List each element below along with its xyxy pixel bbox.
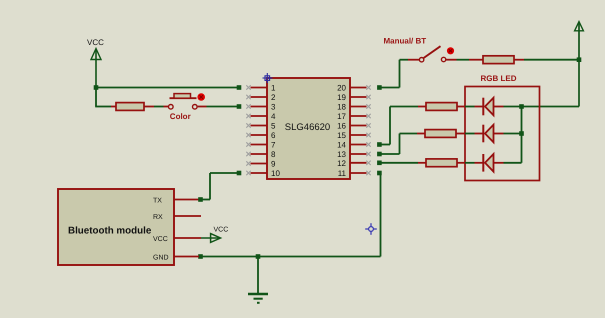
pin VCC lead <box>174 237 201 239</box>
svg-text:7: 7 <box>271 141 276 150</box>
LED D1b (middle) <box>475 125 504 143</box>
svg-text:GND: GND <box>153 255 169 262</box>
power terminal VCC (bluetooth) <box>201 227 228 243</box>
wire pin13 to resistor R4 <box>377 134 417 157</box>
svg-text:2: 2 <box>271 93 276 102</box>
wire button to pin3 <box>207 106 240 108</box>
svg-text:SLG46620: SLG46620 <box>285 122 330 133</box>
svg-text:15: 15 <box>337 131 346 140</box>
pin 19 <box>337 93 371 102</box>
pin 4 <box>246 112 276 121</box>
resistor R3 (top LED row) <box>418 103 465 111</box>
pin 6 <box>246 131 276 140</box>
pin 14 <box>337 141 371 150</box>
svg-text:VCC: VCC <box>214 227 229 234</box>
junction on VCC rail <box>577 57 582 62</box>
resistor R4 (middle LED row) <box>417 130 465 138</box>
resistor R2 (Manual/BT row) <box>469 56 524 64</box>
svg-text:19: 19 <box>337 93 346 102</box>
Bluetooth module body <box>58 189 174 265</box>
pin 8 <box>246 150 276 159</box>
wire to resistor R1 <box>95 106 111 108</box>
pin 1 <box>246 84 276 93</box>
svg-text:17: 17 <box>337 112 346 121</box>
svg-text:Bluetooth module: Bluetooth module <box>68 226 152 237</box>
svg-text:4: 4 <box>271 112 276 121</box>
svg-text:11: 11 <box>338 169 347 178</box>
switch SW1 Manual/BT <box>408 46 457 62</box>
wire end dot at GND pin <box>198 254 203 259</box>
resistor R1 (Color row) <box>111 103 154 111</box>
blue target marker <box>365 223 377 235</box>
LED anode bus wires <box>504 107 522 163</box>
pin 3 <box>246 103 276 112</box>
pin 20 <box>337 84 371 93</box>
svg-text:10: 10 <box>271 169 280 178</box>
svg-text:18: 18 <box>337 103 346 112</box>
svg-text:13: 13 <box>337 150 346 159</box>
pin 17 <box>337 112 371 121</box>
svg-text:5: 5 <box>271 122 276 131</box>
LED D1a (top) <box>475 98 504 116</box>
power terminal VCC top-right <box>575 22 584 107</box>
pin 12 <box>337 159 371 168</box>
wire TX up to pin10 <box>198 171 241 202</box>
pin 9 <box>246 160 276 169</box>
svg-text:9: 9 <box>271 160 276 169</box>
pin 5 <box>246 122 276 131</box>
pin 2 <box>246 93 276 102</box>
push button Color <box>164 94 207 110</box>
svg-text:12: 12 <box>337 159 346 168</box>
pin 15 <box>337 131 371 140</box>
svg-text:VCC: VCC <box>153 236 168 243</box>
svg-text:16: 16 <box>337 122 346 131</box>
pin 13 <box>337 150 371 159</box>
svg-text:20: 20 <box>337 84 346 93</box>
pin 7 <box>246 141 276 150</box>
wire end dot pin3 <box>237 104 242 109</box>
ground symbol <box>248 257 268 303</box>
svg-text:8: 8 <box>271 150 276 159</box>
IC U1 SLG46620 body <box>267 78 350 179</box>
power terminal VCC top-left <box>87 38 104 88</box>
pin TX lead <box>174 199 201 201</box>
wire end dot pin1 <box>237 85 242 90</box>
LED D1c (bottom) <box>475 154 504 172</box>
wire pin14 to resistor R3 <box>377 107 418 147</box>
wire VCC rail to LED anode bus <box>504 106 580 108</box>
wire pin20 up to switch <box>377 60 408 90</box>
junction bus middle <box>519 131 524 136</box>
wire R3 to LED1 <box>465 106 475 108</box>
svg-text:1: 1 <box>271 84 276 93</box>
pin 18 <box>337 103 371 112</box>
RGB LED box D1 <box>465 87 540 181</box>
junction at ground tap <box>256 254 261 259</box>
svg-text:TX: TX <box>153 197 162 204</box>
svg-text:VCC: VCC <box>87 38 104 47</box>
wire VCC to pin1 <box>96 87 239 89</box>
svg-text:6: 6 <box>271 131 276 140</box>
svg-text:RGB LED: RGB LED <box>481 74 517 83</box>
wire R4 to LED2 <box>465 133 475 135</box>
blue origin cross at IC corner <box>263 73 273 83</box>
wire R5 to LED3 <box>465 162 475 164</box>
svg-text:Color: Color <box>170 112 191 121</box>
wire resistor R1 to button <box>154 106 164 108</box>
wire resistor R2 to VCC rail <box>524 59 579 61</box>
wire switch to resistor R2 <box>457 59 470 61</box>
pin 11 <box>338 169 371 178</box>
svg-text:RX: RX <box>153 214 163 221</box>
resistor R5 (bottom LED row) <box>418 159 465 167</box>
pin GND lead <box>174 256 199 258</box>
svg-text:Manual/ BT: Manual/ BT <box>384 37 427 46</box>
junction at VCC branch <box>94 85 99 90</box>
red indicator dot (Color button) <box>197 93 205 101</box>
pin 16 <box>337 122 371 131</box>
red indicator dot (switch) <box>447 47 454 54</box>
wire pin11 down to ground rail <box>201 171 382 257</box>
pin 10 <box>246 169 280 178</box>
pin RX lead <box>174 215 201 217</box>
svg-text:3: 3 <box>271 103 276 112</box>
junction bus top <box>519 104 524 109</box>
svg-text:14: 14 <box>337 141 346 150</box>
wire pin12 to resistor R5 <box>377 161 418 166</box>
wire VCC down to resistor row <box>95 88 97 107</box>
